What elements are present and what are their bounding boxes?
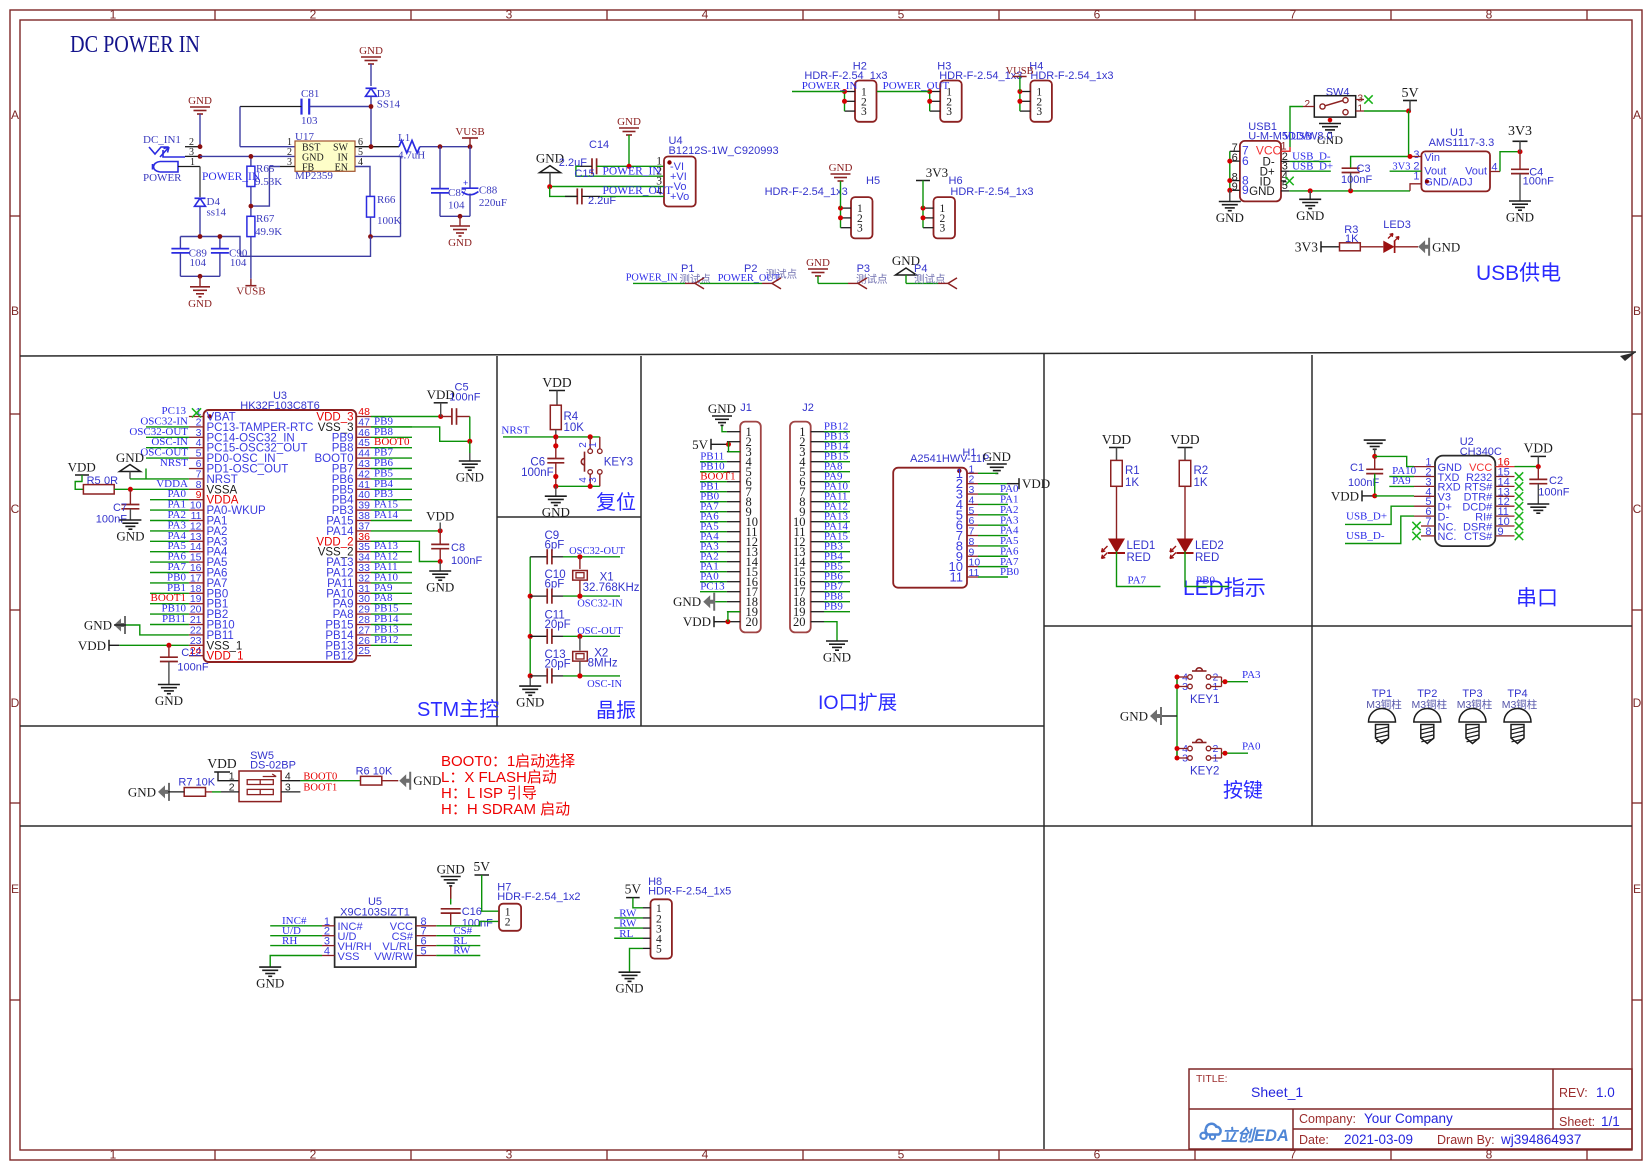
crystal X2 8MHz (579, 636, 581, 650)
svg-text:GND: GND (1296, 208, 1324, 223)
svg-text:4: 4 (702, 1148, 709, 1162)
diode D4 ss14 (195, 197, 206, 199)
svg-text:RED: RED (1195, 552, 1219, 564)
svg-text:1.0: 1.0 (1596, 1085, 1615, 1100)
svg-text:R1: R1 (1125, 465, 1140, 477)
wire LED2 to PB0 (1185, 552, 1229, 587)
wire U2 VCC to VDD (1515, 466, 1539, 468)
svg-text:RED: RED (1127, 552, 1151, 564)
ground GND arrow right of R6 (399, 772, 411, 790)
svg-text:SW4: SW4 (1326, 87, 1350, 99)
svg-text:AMS1117-3.3: AMS1117-3.3 (1429, 137, 1495, 149)
wire C87/C88 bottom rail (440, 215, 470, 217)
svg-text:PC13: PC13 (700, 581, 725, 593)
wire U3 pin43 net PB6 (371, 468, 412, 470)
section divider lines (20, 352, 1636, 356)
svg-text:R66: R66 (377, 194, 396, 206)
wire U3 pin27 net PB13 (371, 634, 412, 636)
wire J2 pin9 net PA12 (824, 511, 850, 513)
svg-text:1: 1 (110, 1148, 117, 1162)
wire H8 pin4 net RL (614, 937, 643, 939)
svg-text:DC_IN1: DC_IN1 (143, 134, 181, 146)
svg-text:VUSB: VUSB (455, 126, 484, 138)
svg-text:VDD: VDD (1022, 476, 1050, 491)
svg-text:VDD: VDD (1170, 432, 1199, 447)
svg-text:IO口扩展: IO口扩展 (818, 692, 897, 714)
wire USB1 shield rail (1229, 151, 1231, 190)
svg-text:3V3: 3V3 (1508, 124, 1532, 139)
ground GND flag right of LED3 (1418, 238, 1430, 256)
wire U3 pin4 net OSC-IN (146, 447, 189, 449)
svg-text:PB11: PB11 (162, 613, 186, 625)
wire U3 pin39 net PA15 (371, 509, 412, 511)
svg-text:E: E (1633, 882, 1641, 896)
ground GND above C1 (1364, 439, 1386, 441)
svg-text:POWER_OUT: POWER_OUT (883, 80, 950, 92)
wire J1 pin11 net PA5 (700, 531, 727, 533)
svg-text:VDD: VDD (68, 460, 96, 475)
ground GND below J2 pin20 (824, 622, 837, 641)
wire J1 pin10 net PA6 (700, 521, 727, 523)
svg-text:3: 3 (1036, 106, 1042, 118)
svg-text:1K: 1K (1125, 477, 1139, 489)
svg-text:按键: 按键 (1223, 779, 1263, 802)
ground GND below C2 (1527, 503, 1549, 505)
svg-text:9.53K: 9.53K (255, 176, 282, 188)
svg-text:5: 5 (898, 8, 905, 22)
svg-text:HDR-F-2.54_1x5: HDR-F-2.54_1x5 (648, 886, 731, 898)
svg-text:NC.: NC. (1438, 531, 1457, 543)
wire J1 pin6 net BOOT1 (700, 481, 727, 483)
svg-text:D: D (11, 696, 20, 710)
svg-text:GND: GND (188, 95, 212, 107)
svg-text:USB供电: USB供电 (1476, 262, 1561, 285)
svg-text:OSC32-IN: OSC32-IN (577, 598, 623, 609)
svg-text:GND: GND (823, 650, 851, 665)
wire H1 pin3 net PA0 (978, 493, 1008, 495)
ground GND below C7 (119, 519, 141, 521)
svg-text:11: 11 (950, 570, 964, 585)
svg-text:5: 5 (656, 944, 662, 956)
svg-text:GND: GND (1432, 239, 1460, 254)
wire U3 pin40 net PB3 (371, 499, 412, 501)
wire H8 pin2 net RW (614, 917, 643, 919)
svg-text:20pF: 20pF (545, 658, 571, 670)
svg-text:GND: GND (1120, 709, 1148, 724)
wire U3 pin10 net PA1 (150, 509, 189, 511)
svg-text:A: A (11, 108, 19, 122)
svg-text:PA3: PA3 (1242, 669, 1261, 681)
wire U3 pin29 net PB15 (371, 613, 412, 615)
wire J2 pin19 net PB9 (824, 611, 850, 613)
wire J1 pin15 net PA1 (700, 571, 727, 573)
svg-text:3V3: 3V3 (1295, 239, 1318, 254)
svg-text:104: 104 (230, 257, 247, 269)
svg-text:PB9: PB9 (824, 601, 843, 613)
svg-text:9: 9 (1242, 183, 1249, 197)
svg-text:+: + (463, 178, 468, 188)
svg-text:2: 2 (310, 1148, 317, 1162)
svg-text:VUSB: VUSB (236, 286, 265, 298)
svg-text:GND: GND (673, 594, 701, 609)
svg-text:VDDA: VDDA (156, 478, 188, 490)
svg-text:1K: 1K (1194, 477, 1208, 489)
svg-text:GND: GND (116, 450, 144, 465)
wire U5 pin3 net RH (270, 945, 322, 947)
svg-text:HDR-F-2.54_1x2: HDR-F-2.54_1x2 (497, 891, 580, 903)
svg-text:GND: GND (516, 695, 544, 710)
wire U3 pin13 net PA4 (150, 540, 189, 542)
wire J2 pin11 net PA14 (824, 531, 850, 533)
resistor R2 1K (1179, 460, 1191, 486)
LED LED2 (1177, 539, 1194, 554)
ground GND below rail (529, 677, 531, 686)
svg-text:GND: GND (1506, 210, 1534, 225)
wire U17 pin3 FB stub (280, 166, 295, 168)
svg-text:6: 6 (1094, 8, 1101, 22)
svg-text:2: 2 (1304, 99, 1310, 110)
wire KEY1 to PA3 (1222, 681, 1249, 683)
svg-text:R7 10K: R7 10K (178, 777, 215, 789)
wire J1 pin17 net PC13 (700, 591, 727, 593)
wire U3 pin17 net PB0 (150, 582, 189, 584)
wire C81 right to D3 node (309, 106, 371, 108)
svg-text:Sheet_1: Sheet_1 (1251, 1084, 1303, 1100)
svg-text:3: 3 (946, 106, 952, 118)
svg-text:100nF: 100nF (177, 662, 208, 674)
svg-text:C16: C16 (462, 906, 482, 918)
power flag VDD + C5 at U3 pin48 (371, 416, 441, 418)
svg-text:wj394864937: wj394864937 (1500, 1132, 1581, 1147)
svg-text:3: 3 (857, 223, 863, 235)
svg-text:VDD: VDD (207, 756, 236, 771)
svg-text:2: 2 (310, 8, 317, 22)
wire U5 CS# (436, 935, 480, 937)
svg-text:DC POWER IN: DC POWER IN (70, 32, 200, 58)
wire SW4 pin1 to 5V node (1364, 110, 1409, 112)
svg-text:POWER_IN: POWER_IN (802, 80, 858, 92)
svg-text:3: 3 (861, 106, 867, 118)
svg-text:KEY1: KEY1 (1190, 694, 1219, 706)
svg-text:8MHz: 8MHz (588, 658, 618, 670)
svg-text:PB12: PB12 (325, 651, 353, 663)
wire U5 RL (436, 945, 480, 947)
svg-text:E: E (11, 882, 19, 896)
wire U3 pin28 net PB14 (371, 624, 412, 626)
wire GND to U2 pin1 (1375, 456, 1414, 466)
svg-text:POWER_OUT: POWER_OUT (718, 273, 781, 284)
wire U3 pin31 net PA9 (371, 592, 412, 594)
svg-text:R67: R67 (256, 213, 275, 225)
wire J2 pin2 net PB13 (824, 441, 850, 443)
svg-text:5V: 5V (473, 859, 490, 874)
svg-text:GND: GND (708, 401, 736, 416)
svg-text:7: 7 (1290, 8, 1297, 22)
svg-text:GND: GND (155, 693, 183, 708)
svg-text:PB0: PB0 (1196, 575, 1215, 587)
wire U3 pin32 net PA10 (371, 582, 412, 584)
svg-text:3: 3 (1413, 149, 1419, 161)
svg-text:100nF: 100nF (451, 555, 482, 567)
ground GND below SW4 (1329, 117, 1331, 122)
svg-text:3: 3 (506, 1148, 513, 1162)
ground GND below C8 (429, 570, 451, 572)
svg-text:104: 104 (448, 200, 465, 212)
junction DC_IN pin2 (198, 144, 203, 149)
wire J2 pin18 net PB8 (824, 601, 850, 603)
wire H1 pin5 net PA2 (978, 514, 1008, 516)
svg-text:RL: RL (619, 928, 633, 940)
ground GND below C89/C90 (199, 276, 201, 287)
svg-text:EN: EN (335, 163, 348, 174)
svg-text:J2: J2 (802, 402, 814, 414)
svg-text:C2: C2 (1549, 475, 1563, 487)
svg-text:POWER_OUT: POWER_OUT (603, 185, 673, 197)
svg-text:GND: GND (542, 505, 570, 520)
capacitor C89 104 (179, 237, 181, 249)
wire J1 pin8 net PB0 (700, 501, 727, 503)
wire U17 pin4 EN to R66 (355, 167, 370, 197)
junction C81/D3 (369, 104, 374, 109)
svg-text:J1: J1 (740, 402, 752, 414)
wire J2 pin17 net PB7 (824, 591, 850, 593)
svg-text:VDD: VDD (78, 638, 106, 653)
svg-text:POWER: POWER (143, 172, 182, 184)
svg-text:C14: C14 (589, 139, 609, 151)
no-connect X marks U2 right (1515, 472, 1523, 480)
wire J2 pin8 net PA11 (824, 501, 850, 503)
svg-text:VDD: VDD (1331, 488, 1359, 503)
svg-text:20pF: 20pF (545, 619, 571, 631)
wire U3 pin14 net PA5 (150, 551, 189, 553)
svg-text:GND: GND (437, 862, 465, 877)
svg-text:立创EDA: 立创EDA (1221, 1126, 1289, 1145)
testpoint P4 with GND (896, 268, 917, 275)
wire J1 pin4 net PB11 (700, 461, 727, 463)
svg-text:GND: GND (456, 470, 484, 485)
svg-text:PB12: PB12 (374, 634, 398, 646)
svg-text:VDD: VDD (1524, 441, 1553, 456)
wire H1 pin6 net PA3 (978, 524, 1008, 526)
wire U3 pin26 net PB12 (371, 644, 412, 646)
svg-text:OSC-IN: OSC-IN (587, 679, 622, 690)
svg-text:A2541HWV-11P: A2541HWV-11P (910, 453, 989, 465)
wire J2 pin3 net PB14 (824, 451, 850, 453)
wire keys left rail (1176, 677, 1178, 758)
svg-text:3: 3 (588, 477, 599, 483)
svg-text:PA14: PA14 (374, 509, 399, 521)
wire H1 pin11 net PB0 (978, 576, 1008, 578)
svg-text:VDD: VDD (1102, 432, 1131, 447)
svg-text:USB_D+: USB_D+ (1346, 511, 1387, 523)
svg-text:HDR-F-2.54_1x3: HDR-F-2.54_1x3 (765, 186, 848, 198)
svg-text:L1: L1 (398, 132, 410, 144)
svg-text:晶振: 晶振 (596, 699, 636, 722)
wire J2 pin5 net PA8 (824, 471, 850, 473)
resistor R1 1K (1111, 460, 1123, 486)
svg-text:6: 6 (1232, 152, 1238, 164)
junction DC_IN pin3 (198, 154, 203, 159)
svg-text:R2: R2 (1194, 465, 1209, 477)
wire J2 pin14 net PB4 (824, 561, 850, 563)
svg-text:C8: C8 (451, 542, 465, 554)
ground GND below H8 pin5 (630, 948, 644, 971)
svg-text:Vout: Vout (1465, 166, 1487, 178)
svg-text:1: 1 (1358, 104, 1364, 115)
wire U3 pin46 net PB8 (371, 436, 412, 438)
wire U17 pin5 IN down (355, 156, 401, 236)
svg-text:4.7uH: 4.7uH (398, 150, 425, 162)
wire U3 pin33 net PA11 (371, 572, 412, 574)
svg-text:串口: 串口 (1516, 587, 1558, 610)
svg-text:20: 20 (793, 615, 806, 629)
wire U3 pin15 net PA6 (150, 561, 189, 563)
svg-text:GND: GND (84, 618, 112, 633)
key KEY3 (589, 437, 591, 449)
svg-text:PA7: PA7 (1128, 575, 1147, 587)
wire U3 pin18 net PB1 (150, 592, 189, 594)
wire U3 pin42 net PB5 (371, 478, 412, 480)
power flag VDD at H1 pin2 (978, 483, 1007, 485)
svg-text:3V3: 3V3 (926, 165, 948, 180)
svg-text:1: 1 (110, 8, 117, 22)
svg-text:PB0: PB0 (1000, 566, 1019, 578)
wire USB1 pin5 GND rail (1289, 190, 1410, 192)
svg-text:Date:: Date: (1299, 1133, 1329, 1147)
svg-text:R65: R65 (256, 163, 275, 175)
svg-text:VDD: VDD (542, 375, 571, 390)
svg-text:GND: GND (806, 257, 830, 269)
ground GND below C87 (459, 216, 461, 226)
svg-text:NRST: NRST (501, 425, 529, 437)
LED LED1 (1108, 539, 1125, 554)
wire J2 pin15 net PB5 (824, 571, 850, 573)
svg-text:LED3: LED3 (1383, 219, 1411, 231)
wire R66 bottom node (371, 236, 401, 238)
wire J2 pin6 net PA9 (824, 481, 850, 483)
svg-text:Your Company: Your Company (1364, 1111, 1453, 1126)
svg-text:100nF: 100nF (521, 467, 554, 479)
wire C89/C90 bottom rail (180, 275, 220, 277)
wire J1 pin12 net PA4 (700, 541, 727, 543)
svg-text:32.768KHz: 32.768KHz (583, 582, 640, 594)
svg-text:GND: GND (448, 237, 472, 249)
capacitor C87 104 (439, 147, 441, 189)
wire U5 VCC rail to H7 pin2 (436, 921, 499, 925)
svg-text:6: 6 (1242, 154, 1249, 168)
wire U3 pin45 net BOOT0 (371, 447, 412, 449)
svg-text:3: 3 (940, 223, 946, 235)
svg-text:USB_D-: USB_D- (1346, 530, 1385, 542)
svg-text:复位: 复位 (596, 491, 636, 514)
svg-text:B: B (1633, 304, 1641, 318)
wire U3 pin2 net OSC32-IN (146, 426, 189, 428)
svg-text:100nF: 100nF (449, 391, 480, 403)
wire H1 pin9 net PA6 (978, 555, 1008, 557)
svg-text:GND: GND (829, 162, 853, 174)
svg-text:C7: C7 (113, 502, 127, 514)
no-connect X on U3 pin1 (192, 408, 201, 417)
svg-text:L：X FLASH启动: L：X FLASH启动 (441, 769, 557, 786)
wire U3 pin35 net PA13 (371, 551, 412, 553)
svg-text:TITLE:: TITLE: (1196, 1073, 1228, 1085)
svg-text:VUSB: VUSB (1283, 131, 1312, 143)
wire U3 pin11 net PA2 (150, 520, 189, 522)
capacitor C8 100nF (439, 531, 441, 545)
svg-text:GND: GND (615, 981, 643, 996)
svg-text:VSS: VSS (338, 951, 360, 963)
ground GND at U5 VSS (270, 956, 322, 967)
svg-text:GND: GND (116, 529, 144, 544)
wire 5V down to U1 Vin (1409, 111, 1410, 157)
wire U5 pin1 net INC# (270, 925, 322, 927)
svg-text:20: 20 (746, 615, 759, 629)
resistor R66 100K (367, 196, 375, 217)
svg-text:+Vo: +Vo (670, 191, 689, 203)
wire J2 pin4 net PB15 (824, 461, 850, 463)
svg-text:B1212S-1W_C920993: B1212S-1W_C920993 (669, 145, 779, 157)
svg-text:6: 6 (1094, 1148, 1101, 1162)
capacitor C4 100nF (1519, 152, 1521, 170)
ground GND below C4 (1509, 200, 1531, 202)
capacitor C7 100nF (129, 489, 131, 504)
svg-text:REV:: REV: (1559, 1086, 1588, 1100)
wire U17 pin6 SW to L1 (355, 146, 399, 148)
svg-text:SS14: SS14 (377, 99, 401, 111)
svg-text:2: 2 (505, 917, 511, 929)
svg-text:C81: C81 (301, 88, 319, 100)
svg-text:GND/ADJ: GND/ADJ (1424, 177, 1472, 189)
svg-text:H：L ISP 引导: H：L ISP 引导 (441, 785, 537, 802)
svg-text:Company:: Company: (1299, 1112, 1356, 1126)
svg-text:OSC-OUT: OSC-OUT (577, 626, 623, 637)
svg-text:OSC32-OUT: OSC32-OUT (569, 546, 626, 557)
wire U3 pin20 net PB10 (150, 613, 189, 615)
svg-text:C15: C15 (574, 168, 594, 180)
svg-text:BOOT1: BOOT1 (303, 782, 337, 793)
wire J1 pin5 net PB10 (700, 471, 727, 473)
wire U3 pin44 net PB7 (371, 457, 412, 459)
svg-text:3: 3 (506, 8, 513, 22)
svg-text:5V: 5V (625, 882, 642, 897)
svg-text:C: C (11, 502, 20, 516)
resistor R65 9.53K (247, 166, 255, 186)
wire U3 pin9 net PA0 (150, 499, 189, 501)
wire R5 to U3 VDDA (114, 488, 189, 490)
svg-text:8: 8 (1486, 8, 1493, 22)
wire H1 pin8 net PA5 (978, 545, 1008, 547)
svg-text:GND: GND (359, 45, 383, 57)
wire U4 pin3 to GND (550, 186, 664, 188)
svg-text:5V: 5V (1401, 86, 1418, 101)
capacitor C3 100nF (1351, 157, 1410, 169)
svg-text:C12: C12 (181, 647, 201, 659)
svg-text:POWER_IN: POWER_IN (626, 273, 679, 284)
svg-text:NRST: NRST (160, 457, 188, 469)
wire U3 pin5 net OSC-OUT (146, 457, 189, 459)
wire U3 pin19 net BOOT1 (150, 603, 189, 605)
svg-text:C88: C88 (479, 185, 498, 197)
svg-text:100nF: 100nF (1538, 487, 1569, 499)
wire C89/C90 top rail (180, 237, 240, 257)
wire U3 pin36 loop to C8 gnd (371, 541, 440, 561)
wire U3 pin47 net PB9 (371, 426, 412, 428)
wire crystal left rail (529, 557, 531, 677)
svg-text:ss14: ss14 (207, 207, 227, 219)
logo LCEDA (1206, 1124, 1221, 1135)
capacitor C6 100nF (555, 437, 557, 459)
svg-text:GND: GND (426, 580, 454, 595)
